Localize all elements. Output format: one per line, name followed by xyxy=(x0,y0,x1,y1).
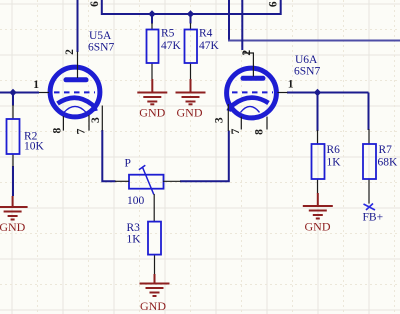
resistor R7 pins xyxy=(368,129,370,144)
ground symbol at R4 xyxy=(176,79,206,104)
ground symbol at R5 xyxy=(137,79,167,104)
wire horizontal bus y=40.5 to right edge xyxy=(228,40,400,42)
junction dot at R5 xyxy=(148,10,155,17)
svg-text:3: 3 xyxy=(90,117,102,123)
svg-text:R4: R4 xyxy=(199,28,213,40)
svg-text:100: 100 xyxy=(127,195,145,207)
wire U5A grid net from left edge xyxy=(0,92,39,94)
wire down to R6 xyxy=(317,93,319,132)
svg-text:6SN7: 6SN7 xyxy=(294,66,320,78)
resistor R4 pins xyxy=(190,23,192,30)
svg-text:6: 6 xyxy=(89,1,101,7)
tube U6A envelope xyxy=(227,68,277,118)
resistor R7 body xyxy=(363,144,376,179)
ground symbol at R2 xyxy=(0,196,28,220)
U5A grid pin xyxy=(39,92,49,94)
U6A pin 8 stub xyxy=(266,117,268,130)
svg-text:1K: 1K xyxy=(127,234,142,246)
wire down to R2 xyxy=(12,93,14,106)
wire net pin6-to-pin6 top bus xyxy=(102,0,281,14)
svg-text:8: 8 xyxy=(51,127,63,133)
wire U6A grid to resistors xyxy=(287,92,369,94)
wire down to R7 xyxy=(368,93,370,131)
wire pot right to U6A cathode xyxy=(180,131,229,182)
U6A grid dashed xyxy=(232,91,273,93)
resistor R2 pins xyxy=(12,105,14,119)
svg-text:10K: 10K xyxy=(24,141,45,153)
FB+ port marker xyxy=(364,204,376,211)
U6A cathode arc xyxy=(229,98,269,111)
resistor R2 body xyxy=(7,119,20,154)
resistor R5 pins xyxy=(151,23,153,30)
P left pin xyxy=(115,180,129,182)
resistor R5 body xyxy=(147,30,159,64)
svg-text:68K: 68K xyxy=(378,157,399,169)
svg-text:7: 7 xyxy=(230,128,242,134)
tube U5A envelope xyxy=(50,67,100,117)
svg-text:47K: 47K xyxy=(199,40,220,52)
svg-text:8: 8 xyxy=(254,129,266,135)
wire stub to R5 xyxy=(151,14,153,24)
junction dot at R4 xyxy=(187,10,194,17)
resistor R3 pins xyxy=(154,255,156,275)
resistor R6 body xyxy=(312,144,325,179)
U5A plate pin xyxy=(77,52,79,79)
resistor R6 pins xyxy=(317,130,319,144)
U6A plate pin xyxy=(242,53,253,77)
svg-text:GND: GND xyxy=(305,220,331,234)
svg-text:6: 6 xyxy=(267,1,279,7)
wire vertical at x=229 from top xyxy=(228,0,230,41)
svg-text:R6: R6 xyxy=(327,144,341,156)
svg-text:2: 2 xyxy=(64,49,76,55)
svg-text:1: 1 xyxy=(288,79,294,91)
junction dot U6A grid net xyxy=(314,89,321,96)
svg-text:GND: GND xyxy=(0,220,26,234)
U5A plate bar xyxy=(66,77,86,82)
U5A pin 7 stub xyxy=(88,115,90,131)
potentiometer P body xyxy=(129,175,164,189)
P wiper pin down xyxy=(153,194,155,222)
svg-text:1K: 1K xyxy=(327,157,342,169)
svg-text:R3: R3 xyxy=(127,222,141,234)
P right pin xyxy=(163,180,181,182)
U6A grid pin xyxy=(278,92,288,94)
svg-text:GND: GND xyxy=(139,106,165,120)
U6A plate bar xyxy=(243,76,263,81)
ground symbol at R3 xyxy=(140,274,170,296)
svg-text:GND: GND xyxy=(140,299,166,313)
U6A pin 3 stub xyxy=(227,104,229,131)
resistor R3 body xyxy=(148,222,161,255)
U5A pin 8 stub xyxy=(62,116,64,131)
svg-text:P: P xyxy=(125,158,131,170)
svg-text:3: 3 xyxy=(213,117,225,123)
wire U5A plate (pin 2) from top edge xyxy=(77,0,79,52)
wire U5A cathode down and to pot xyxy=(102,130,115,181)
svg-text:GND: GND xyxy=(177,106,203,120)
svg-text:47K: 47K xyxy=(161,40,182,52)
wire U6A plate (pin 2) from top edge xyxy=(241,0,243,50)
svg-text:7: 7 xyxy=(75,128,87,134)
svg-text:FB+: FB+ xyxy=(363,212,384,224)
P wiper arrow xyxy=(142,167,153,195)
U6A heater arc xyxy=(241,106,260,112)
ground symbol at R6 xyxy=(303,193,333,219)
junction dot grid net xyxy=(9,89,16,96)
svg-text:1: 1 xyxy=(33,79,39,91)
U5A heater arc xyxy=(64,106,86,112)
U6A pin 7 stub xyxy=(240,117,242,130)
svg-text:R5: R5 xyxy=(161,28,175,40)
wire stub to R4 xyxy=(190,14,192,24)
U5A cathode arc xyxy=(58,98,96,111)
resistor R4 body xyxy=(185,30,198,64)
wire R2 to ground xyxy=(12,166,14,196)
svg-text:6SN7: 6SN7 xyxy=(88,42,114,54)
svg-text:U5A: U5A xyxy=(89,30,112,42)
U5A pin 3 stub xyxy=(101,106,103,131)
svg-text:2: 2 xyxy=(241,50,253,56)
U5A grid dashed xyxy=(54,91,95,93)
svg-text:U6A: U6A xyxy=(295,54,318,66)
svg-text:R7: R7 xyxy=(379,144,393,156)
